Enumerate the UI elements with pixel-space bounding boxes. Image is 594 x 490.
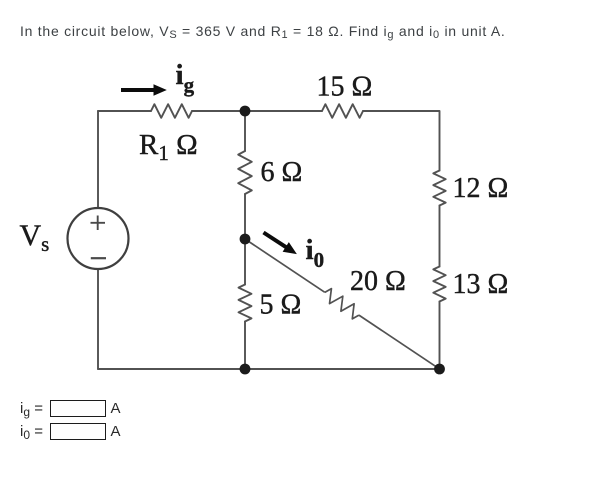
wire: left rail lower (source to bottom rail) — [97, 269, 99, 369]
wire: 15 ohm to top-right corner and down to 12 ohm — [363, 111, 440, 171]
plus sign inside source — [91, 216, 106, 231]
resistor 6 ohm zigzag — [238, 151, 252, 194]
current arrow i0 — [260, 228, 300, 259]
svg-text:15 Ω: 15 Ω — [317, 72, 373, 103]
current arrow ig — [121, 84, 167, 95]
svg-text:20 Ω: 20 Ω — [350, 266, 406, 297]
wire: right rail between 12 ohm and 13 ohm — [439, 206, 441, 267]
wire: 5 ohm to node C — [244, 322, 246, 370]
svg-text:12 Ω: 12 Ω — [453, 173, 509, 204]
resistor 20 ohm zigzag — [321, 287, 363, 321]
node A (top middle junction) — [240, 106, 251, 117]
resistor 13 ohm zigzag — [433, 267, 445, 302]
wire: node A to 15 ohm — [245, 110, 322, 112]
node C (bottom middle junction) — [240, 364, 251, 375]
minus sign inside source — [91, 257, 106, 259]
svg-text:5 Ω: 5 Ω — [260, 290, 302, 321]
voltage source Vs circle — [68, 208, 129, 269]
problem statement text — [20, 23, 506, 39]
resistor 15 ohm zigzag — [322, 104, 363, 118]
svg-text:R1 Ω: R1 Ω — [139, 129, 198, 165]
wire: node B to 5 ohm — [244, 239, 246, 285]
resistor 12 ohm zigzag — [433, 171, 445, 206]
diagonal branch node B to node D with 20 ohm — [241, 233, 443, 374]
svg-text:13 Ω: 13 Ω — [453, 269, 509, 300]
node B (middle junction) — [240, 234, 251, 245]
answer row ig — [20, 400, 121, 417]
wire: diagonal lower segment — [359, 315, 440, 369]
wire: diagonal upper segment — [245, 239, 325, 292]
node D (bottom right junction) — [434, 364, 445, 375]
wire: right rail lower to node D — [439, 302, 441, 370]
wire top rail: corner to R1 — [98, 110, 151, 112]
svg-text:ig: ig — [176, 59, 195, 97]
svg-text:6 Ω: 6 Ω — [261, 157, 303, 188]
resistor 5 ohm zigzag — [239, 285, 252, 322]
wire: R1 to node A — [192, 110, 245, 112]
wire: 6 ohm to node B — [244, 194, 246, 239]
answer row i0 — [20, 423, 121, 440]
svg-text:Vs: Vs — [20, 219, 50, 256]
wire: bottom rail — [98, 368, 440, 370]
svg-text:i0: i0 — [306, 234, 325, 272]
wire: mid rail node A to 6 ohm — [244, 111, 246, 151]
wire: left rail upper (corner to source) — [97, 111, 99, 208]
resistor R1 zigzag — [151, 104, 192, 118]
